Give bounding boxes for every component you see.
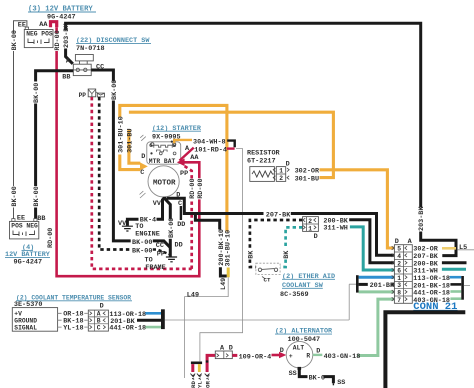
svg-text:BK: BK: [283, 250, 291, 259]
terminal label AA (solenoid BAT): [190, 154, 199, 162]
svg-text:RD-00: RD-00: [47, 228, 55, 248]
svg-text:BK-00: BK-00: [132, 239, 152, 247]
wire 109-OR-4 label and arrow into alternator: [232, 347, 286, 361]
svg-text:1: 1: [397, 275, 401, 282]
wire stub RD (alternator feed, off page): [190, 364, 197, 388]
wire stub 403-GN-18 right: [450, 297, 461, 300]
terminal label AA (battery B1): [39, 21, 48, 29]
arrow into starter MTR terminal (orange): [140, 162, 148, 170]
battery B2 (12V battery 9G-4247): [10, 219, 39, 239]
svg-text:BK-00: BK-00: [33, 186, 41, 206]
svg-text:D: D: [280, 347, 284, 355]
wire BK dashed (ether aid to connector pin2): [247, 220, 302, 267]
wire 441-OR-18 (sensor side): [109, 325, 161, 333]
resistor heading: [247, 149, 281, 165]
ground symbol (engine, left): [122, 226, 133, 231]
thin routing line (sensor bundle to CONN21 bundle): [165, 319, 349, 321]
svg-text:D: D: [286, 160, 290, 168]
svg-text:EE: EE: [18, 21, 26, 29]
svg-text:4: 4: [397, 253, 401, 260]
svg-text:S: S: [173, 142, 177, 149]
wire label 301-BU (resistor pin2): [295, 175, 319, 183]
starter solenoid (MTR BAT): [140, 135, 181, 165]
terminal label BB (switch): [62, 73, 70, 81]
svg-text:CT: CT: [264, 276, 271, 283]
connector CONN 21: [392, 238, 413, 304]
svg-text:1: 1: [308, 226, 312, 233]
svg-text:SS: SS: [289, 370, 297, 378]
wire BK-00 (motor to frame ground node): [165, 198, 176, 256]
svg-text:201-BK: 201-BK: [370, 282, 395, 290]
connector pins (alternator, A/D): [215, 345, 233, 359]
wire stub 302-OR right (pale): [442, 247, 456, 250]
terminal label A (solenoid): [185, 145, 190, 153]
svg-text:VV: VV: [153, 200, 162, 208]
svg-text:403-GN-18: 403-GN-18: [324, 353, 361, 361]
svg-text:100-5047: 100-5047: [288, 336, 321, 344]
wire 302-OR (orange, resistor to CONN21 pin5): [320, 170, 395, 248]
wire 113-OR-18 (sensor side): [109, 311, 161, 319]
wire 113-OR-18 (blue, into CONN21 pin1): [359, 276, 395, 279]
svg-text:1: 1: [279, 167, 283, 174]
terminal label EE (battery B1): [18, 21, 26, 29]
svg-text:ALT: ALT: [293, 344, 305, 351]
wire 304-WH-8 (from solenoid S terminal): [174, 138, 235, 147]
svg-text:301-BU: 301-BU: [295, 175, 319, 183]
wire 201-BK (into CONN21 pin3): [359, 282, 395, 290]
wire RD-00 dashed (PP connector to starter PP, crimson dashed U): [92, 97, 197, 269]
svg-text:RESISTOR: RESISTOR: [247, 149, 281, 157]
svg-text:2: 2: [279, 175, 283, 182]
wire stub 200-BK right: [442, 261, 467, 264]
svg-text:YL-18: YL-18: [63, 325, 83, 333]
terminal label D (solenoid MTR): [141, 153, 145, 161]
terminal label VV (motor): [153, 200, 162, 208]
svg-text:3: 3: [397, 282, 401, 289]
wire from C terminal: [178, 200, 182, 220]
wire 301-BU (orange, starter MTR to resistor pin2): [126, 112, 333, 177]
terminal label DD (upper): [177, 221, 185, 229]
battery (4) 12V BATTERY heading: [5, 244, 51, 266]
wire 200-BK-10 (to L49 stub): [195, 214, 227, 291]
svg-text:C: C: [140, 169, 144, 177]
svg-text:9G-4247: 9G-4247: [14, 258, 43, 266]
svg-text:PP: PP: [180, 170, 188, 178]
wire 203-BK (top horizontal run, switch A to CONN21 pin4 side): [63, 23, 456, 256]
battery clamp (positive, red): [49, 20, 58, 27]
ground hash (motor left): [140, 191, 146, 198]
svg-text:2: 2: [308, 218, 312, 225]
wire 109-OR-4 (red, from off page into alternator): [204, 355, 215, 388]
wire BK dashed teal (ether aid to connector pin1): [280, 227, 302, 267]
battery B1 (12V battery 9G-4247): [24, 27, 53, 47]
svg-text:+: +: [289, 353, 293, 360]
connector pins (sensor, D, A/B/C): [88, 302, 108, 331]
svg-text:ENGINE: ENGINE: [135, 231, 159, 239]
svg-text:5: 5: [397, 246, 401, 253]
svg-text:203-BK: 203-BK: [418, 206, 426, 231]
svg-text:BB: BB: [37, 215, 45, 223]
alternator G1 (100-5047): [286, 341, 313, 369]
wire BB BK-00 (switch to battery B2): [33, 71, 73, 219]
svg-text:R: R: [306, 353, 310, 360]
wire 101-RD-4 (red diagonal from A to label): [180, 147, 235, 161]
svg-text:101-RD-4: 101-RD-4: [194, 147, 227, 155]
terminal label PP (solenoid): [180, 170, 188, 178]
wire 201-BK (sensor side): [110, 318, 161, 326]
svg-text:SIGNAL: SIGNAL: [14, 324, 37, 331]
svg-text:6: 6: [397, 268, 401, 275]
svg-text:D: D: [176, 192, 180, 200]
svg-text:EE: EE: [17, 215, 25, 223]
svg-text:BB: BB: [62, 73, 70, 81]
wire BK-00 dashed (PP connector pin2 to frame ground row): [99, 97, 170, 259]
node (motor bottom junction): [163, 197, 166, 200]
wire BK-4 (motor to engine ground): [118, 198, 164, 239]
wire 311-WH (teal, to CONN21 pin6): [323, 225, 394, 270]
wire stub 201-BK-18 right: [450, 283, 461, 286]
svg-text:D: D: [100, 302, 104, 310]
wire label BK-18 (sensor GROUND): [63, 318, 88, 326]
wire RD-00 (battery B1 POS down, solid crimson U to starter BAT): [47, 27, 205, 276]
disconnect switch heading: [76, 37, 151, 53]
svg-text:BK-6: BK-6: [309, 374, 325, 382]
CONN21 right side labels: [413, 246, 450, 305]
svg-text:6T-2217: 6T-2217: [247, 158, 276, 166]
svg-text:RD-00: RD-00: [197, 178, 205, 198]
svg-text:BK-00: BK-00: [168, 218, 176, 238]
thin routing line L49 (stub area down to sensor line): [185, 277, 229, 378]
coolant temperature sensor heading: [14, 294, 132, 309]
svg-text:NEG POS: NEG POS: [26, 30, 53, 37]
svg-text:BK-00: BK-00: [11, 186, 19, 206]
svg-text:AA: AA: [39, 21, 48, 29]
svg-text:200-BK-10: 200-BK-10: [218, 229, 226, 266]
svg-text:304-WH-8: 304-WH-8: [193, 138, 226, 146]
svg-text:PP: PP: [79, 92, 87, 99]
alternator heading: [275, 328, 333, 344]
svg-text:OR-4: OR-4: [204, 374, 211, 388]
svg-text:7N-0718: 7N-0718: [76, 45, 105, 53]
wire stub 441-OR-18 right: [450, 290, 461, 293]
wire 200-BK (to CONN21 pin2): [323, 218, 394, 263]
svg-text:8: 8: [397, 290, 401, 297]
wire stub 113-OR-18 right: [450, 276, 462, 279]
svg-text:CC: CC: [156, 242, 164, 250]
svg-text:POS NEG: POS NEG: [11, 222, 38, 229]
off-page L5: [457, 244, 474, 252]
terminal label C (solenoid): [140, 169, 144, 177]
wire 403-GN-18 (green, alternator R to CONN21 pin7): [358, 299, 395, 355]
svg-text:302-OR: 302-OR: [295, 167, 320, 175]
wire EE BK-00 (left vertical, battery B1 to battery B2): [11, 21, 27, 219]
ether aid heading: [280, 273, 335, 299]
connector PP (2-pin): [79, 89, 105, 99]
svg-text:311-WH: 311-WH: [323, 225, 347, 233]
svg-text:MOTOR: MOTOR: [153, 180, 176, 188]
disconnect switch SW1 (7N-0718): [72, 55, 94, 76]
svg-text:9G-4247: 9G-4247: [47, 13, 76, 21]
resistor R (6T-2217): [250, 167, 275, 182]
svg-text:L49: L49: [187, 291, 199, 299]
svg-text:403-GN-18: 403-GN-18: [413, 297, 450, 305]
svg-text:2: 2: [397, 260, 401, 267]
harness bundle bar (left of CONN21): [349, 275, 358, 320]
svg-text:BK-00: BK-00: [111, 80, 119, 100]
terminal label EE (battery B2): [17, 215, 25, 223]
svg-text:BK-00: BK-00: [132, 248, 152, 256]
svg-text:L49: L49: [220, 278, 228, 290]
harness bundle bar (alternator feed): [191, 362, 202, 365]
svg-text:207-BK: 207-BK: [266, 211, 291, 219]
wire 403-GN-18 label (alternator R): [313, 347, 361, 361]
svg-text:203-BK: 203-BK: [63, 23, 71, 48]
terminal label DD (lower): [175, 241, 183, 249]
thin routing line (304/101 junction down to alternator area): [200, 149, 243, 362]
battery (3) 12V BATTERY heading: [28, 6, 96, 22]
svg-text:RD-00: RD-00: [189, 178, 197, 198]
svg-text:109-OR-4: 109-OR-4: [239, 353, 272, 361]
harness bundle bar (right of sensor): [161, 309, 165, 329]
wire BK-6 (alternator ground SS): [289, 369, 346, 387]
arrow into solenoid BAT terminal (crimson): [177, 159, 185, 167]
svg-text:8C-3569: 8C-3569: [280, 291, 309, 299]
svg-text:C: C: [97, 324, 101, 331]
harness bundle bar (right of CONN21): [461, 276, 470, 300]
svg-text:SS: SS: [337, 379, 345, 387]
svg-text:DD: DD: [177, 221, 185, 229]
svg-text:D: D: [229, 345, 233, 353]
terminal label BB (battery B2): [37, 215, 45, 223]
svg-text:301-BU-10: 301-BU-10: [117, 116, 125, 153]
svg-text:D: D: [141, 153, 145, 161]
svg-text:G: G: [149, 142, 153, 149]
svg-text:BK-00: BK-00: [33, 83, 41, 103]
svg-text:BK-00: BK-00: [11, 30, 19, 50]
svg-text:BK: BK: [247, 250, 255, 259]
svg-text:441-OR-18: 441-OR-18: [109, 325, 146, 333]
wire label YL-18 (sensor SIGNAL): [63, 325, 88, 333]
svg-text:301-BU: 301-BU: [126, 128, 134, 152]
ground symbol (frame): [145, 257, 178, 273]
terminal label CC (switch): [96, 64, 104, 72]
starter heading: [152, 125, 202, 142]
starter motor M: [148, 166, 179, 197]
wire 301-BU-10 (orange, starter MTR to L49 stub): [117, 105, 232, 277]
wire CC BK-00 (switch CC down to frame ground row): [91, 70, 170, 250]
svg-text:FRAME: FRAME: [145, 264, 165, 272]
wire stub YL (alternator feed, off page): [197, 364, 204, 388]
svg-text:MTR BAT: MTR BAT: [149, 158, 176, 165]
terminal label A (switch): [66, 58, 71, 66]
wire thick black L (bottom right, off page): [385, 312, 465, 388]
svg-text:7: 7: [397, 297, 401, 304]
wire stub 311-WH right: [442, 268, 466, 271]
svg-text:RD-00: RD-00: [54, 30, 62, 50]
ether aid coolant switch (8C-3569): [256, 263, 280, 283]
svg-text:AA: AA: [190, 154, 199, 162]
wire label 302-OR (resistor pin1): [295, 167, 320, 175]
svg-text:DD: DD: [175, 241, 183, 249]
connector pins (resistor, D): [273, 160, 289, 182]
svg-text:L5: L5: [459, 244, 467, 252]
wire 441-OR-18 (green, into CONN21 pin8): [359, 290, 395, 293]
svg-text:D: D: [314, 233, 318, 241]
connector pins (ether aid, D, 2/1): [303, 217, 319, 241]
CONN 21 label: [413, 301, 457, 313]
wire label OR-18 (sensor +V): [63, 311, 88, 319]
svg-text:YL-4: YL-4: [197, 374, 204, 388]
wire 207-BK (motor D to CONN21 pin4): [167, 192, 395, 256]
coolant temperature sensor (3E-5370): [12, 308, 61, 332]
